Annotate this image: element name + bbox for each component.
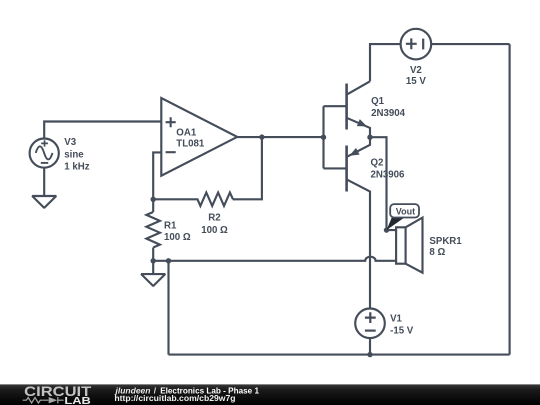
V2 plus sign	[406, 38, 417, 49]
V3 plus sign	[41, 140, 48, 146]
svg-text:100 Ω: 100 Ω	[201, 225, 228, 236]
svg-text:15 V: 15 V	[406, 76, 426, 87]
Q2 emitter from output node	[347, 137, 370, 157]
junction node: ground to bottom rail	[166, 258, 171, 263]
svg-text:2N3906: 2N3906	[371, 169, 406, 180]
svg-text:8 Ω: 8 Ω	[429, 247, 445, 258]
resistor R1	[146, 212, 160, 248]
wire top rail to V2 right	[432, 43, 510, 45]
transistor Q2 base bar	[345, 146, 348, 192]
svg-text:LAB: LAB	[64, 396, 90, 405]
resistor R2	[153, 193, 233, 206]
svg-text:Q1: Q1	[371, 96, 385, 107]
ground GND1 (below V3)	[32, 196, 56, 208]
svg-text:R1: R1	[164, 220, 177, 231]
Q2 emitter arrow	[349, 148, 359, 156]
wire feedback from output node down to R2	[233, 137, 262, 199]
Q1 collector diagonal	[347, 81, 370, 94]
junction node: op-amp output	[259, 134, 264, 139]
wire Q1 base stub	[324, 105, 347, 107]
wire bottom rail	[169, 354, 510, 356]
footer logo schematic line (resistor + diode)	[23, 397, 64, 403]
V3 minus sign	[41, 162, 48, 164]
Q2 collector diagonal down to V1	[347, 179, 370, 308]
wire left vertical down to bottom rail	[167, 261, 169, 355]
svg-text:100 Ω: 100 Ω	[164, 232, 191, 243]
wire output node right and down to speaker	[370, 137, 396, 230]
junction node: V1 bottom rail	[367, 352, 372, 357]
svg-text:http://circuitlab.com/cb29w7g: http://circuitlab.com/cb29w7g	[114, 393, 235, 403]
V1 minus sign	[365, 330, 376, 332]
svg-text:V2: V2	[410, 65, 422, 76]
wire V2 left to Q1 collector	[370, 44, 400, 81]
svg-text:-15 V: -15 V	[390, 326, 414, 337]
V2 minus bar	[422, 39, 424, 50]
junction node: transistor bases	[321, 135, 326, 140]
svg-text:R2: R2	[208, 212, 220, 223]
wire base junction vertical	[322, 106, 324, 168]
node Vout flag	[387, 204, 420, 230]
speaker SPKR1 horn	[406, 218, 423, 273]
wire inverting input to feedback node	[153, 152, 161, 199]
wire ground node down to ground symbol	[152, 261, 154, 274]
ground GND2 (below R1)	[141, 274, 165, 286]
junction node: feedback R1/R2	[151, 197, 156, 202]
wire V3 bottom to ground	[43, 168, 45, 196]
transistor Q1 base bar	[345, 84, 348, 130]
wire V1 bottom to rail	[369, 338, 371, 355]
op-amp plus input symbol	[166, 117, 176, 127]
junction node: R1 ground	[151, 258, 156, 263]
wire output node to transistor bases	[262, 136, 324, 138]
svg-text:Q2: Q2	[371, 157, 384, 168]
voltage source V2 circle	[401, 29, 432, 60]
voltage source V3 circle	[30, 139, 59, 168]
wire V3 top to op-amp non-inverting input	[44, 122, 161, 140]
svg-text:sine: sine	[64, 149, 84, 160]
footer bar	[0, 384, 540, 405]
svg-text:TL081: TL081	[176, 139, 205, 150]
svg-text:1 kHz: 1 kHz	[64, 162, 89, 173]
V3 sine wave	[36, 146, 53, 159]
wire R1 to ground node	[152, 248, 154, 261]
svg-text:V1: V1	[390, 314, 402, 325]
svg-text:2N3904: 2N3904	[371, 108, 406, 119]
svg-text:OA1: OA1	[176, 128, 197, 139]
wire ground row to speaker (with hop over V1 wire)	[153, 257, 396, 261]
op-amp minus input symbol	[166, 151, 176, 153]
svg-text:V3: V3	[64, 137, 76, 148]
wire right vertical rail	[509, 44, 511, 355]
voltage source V1 circle	[355, 309, 385, 339]
junction node: Vout at speaker	[384, 227, 389, 232]
speaker SPKR1 body	[396, 227, 406, 263]
V1 plus sign	[365, 312, 376, 323]
wire Q2 base stub	[324, 167, 347, 169]
wire feedback node to R1	[152, 199, 154, 212]
op-amp OA1 triangle	[161, 98, 237, 176]
svg-text:Vout: Vout	[396, 207, 415, 217]
footer logo diode arrow	[49, 397, 58, 403]
junction node: emitters output	[367, 135, 372, 140]
Q1 emitter diagonal	[347, 118, 370, 137]
wire op-amp output	[237, 136, 262, 138]
Q1 emitter arrow	[357, 119, 367, 126]
svg-text:SPKR1: SPKR1	[429, 236, 462, 247]
